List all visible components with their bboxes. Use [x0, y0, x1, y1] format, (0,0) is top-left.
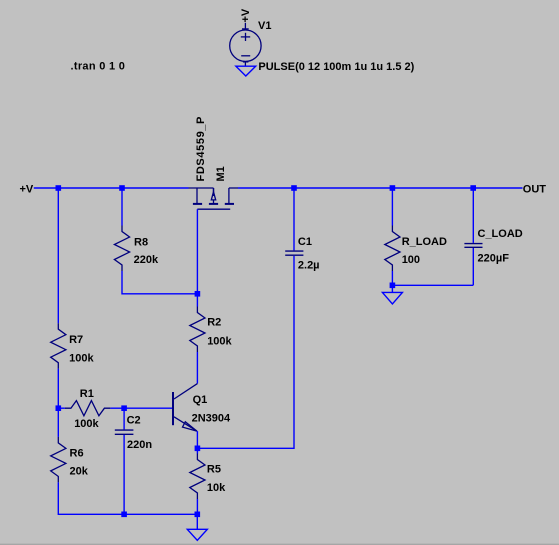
wire C_LOAD top: [472, 188, 474, 243]
wire node to R1: [58, 407, 65, 409]
svg-text:20k: 20k: [70, 466, 89, 478]
ground stem below R5 node: [196, 514, 198, 529]
resistor R7: [51, 323, 66, 369]
node C2 bottom rail: [121, 512, 127, 518]
wire R7 bottom to node: [57, 369, 59, 409]
transistor Q1: [173, 384, 197, 432]
resistor R_LOAD: [385, 226, 400, 272]
resistor R8: [114, 226, 129, 272]
capacitor C1: [285, 251, 303, 255]
wire R_LOAD top: [391, 188, 393, 226]
svg-text:10k: 10k: [207, 482, 226, 494]
node rail R8 branch: [119, 185, 125, 191]
svg-text:100k: 100k: [69, 352, 94, 364]
svg-text:V1: V1: [258, 20, 271, 32]
wire R1 to Q1 base: [110, 407, 172, 409]
wire R_LOAD bottom: [391, 271, 393, 285]
wire C1 top: [293, 188, 295, 250]
ground stem below R_LOAD: [391, 285, 393, 292]
wire Q1 emitter down: [196, 431, 198, 448]
resistor R6: [51, 437, 66, 483]
node rail R7 branch: [56, 185, 62, 191]
wire R6 top: [57, 408, 59, 437]
svg-text:100k: 100k: [207, 335, 232, 347]
ground at R5: [187, 529, 207, 540]
capacitor C_LOAD: [464, 244, 482, 248]
node R5 bottom rail: [195, 512, 201, 518]
node R7 R1 R6: [56, 405, 62, 411]
node rail R_LOAD: [390, 185, 396, 191]
window bottom edge strip: [0, 543, 559, 544]
wire R6 bottom + bottom rail: [58, 482, 197, 514]
svg-text:.tran 0 1 0: .tran 0 1 0: [71, 61, 126, 73]
svg-text:R1: R1: [80, 388, 94, 400]
svg-text:2.2µ: 2.2µ: [298, 259, 320, 271]
wire R2 bottom to Q1 collector: [196, 352, 198, 384]
wire R_LOAD bottom node to C_LOAD bottom: [392, 284, 473, 286]
MOSFET M1: [189, 188, 239, 209]
svg-text:FDS4559_P: FDS4559_P: [195, 116, 207, 182]
svg-text:R6: R6: [70, 448, 84, 460]
svg-text:C_LOAD: C_LOAD: [478, 228, 523, 240]
wire gate of M1 down: [196, 209, 198, 294]
svg-text:100: 100: [402, 254, 420, 266]
svg-text:Q1: Q1: [193, 394, 208, 406]
wire drain rail to OUT: [238, 187, 523, 189]
node emitter R5 C1: [195, 446, 201, 452]
svg-text:R8: R8: [134, 236, 148, 248]
wire +V rail: [34, 187, 189, 189]
svg-text:R2: R2: [207, 317, 221, 329]
capacitor C2: [115, 430, 134, 434]
resistor R2: [190, 307, 205, 353]
svg-text:2N3904: 2N3904: [192, 412, 231, 424]
svg-text:+V: +V: [240, 8, 252, 22]
wire emitter node to C1 bottom: [197, 256, 294, 448]
svg-text:100k: 100k: [74, 418, 99, 430]
wire R8 branch top: [121, 188, 123, 226]
wire R7 branch top: [57, 188, 59, 323]
ground at R_LOAD: [382, 292, 402, 304]
svg-text:OUT: OUT: [523, 184, 547, 196]
node rail C1: [291, 185, 297, 191]
resistor R5: [190, 454, 205, 500]
node rail C_LOAD: [470, 185, 476, 191]
svg-text:PULSE(0 12 100m 1u 1u 1.5 2): PULSE(0 12 100m 1u 1u 1.5 2): [258, 61, 414, 73]
wire R5 top lead: [196, 448, 198, 453]
svg-text:M1: M1: [215, 166, 227, 181]
wire R5 bottom: [196, 499, 198, 514]
node gate R8 R2: [195, 291, 201, 297]
node R_LOAD gnd C_LOAD: [390, 283, 396, 289]
wire R8 bottom to gate node: [122, 271, 197, 294]
svg-text:220n: 220n: [127, 439, 152, 451]
node R1 C2 base: [121, 405, 127, 411]
svg-text:R_LOAD: R_LOAD: [402, 236, 447, 248]
svg-text:220µF: 220µF: [478, 253, 510, 265]
wire C_LOAD bottom: [472, 248, 474, 285]
svg-text:C1: C1: [298, 236, 312, 248]
svg-text:220k: 220k: [134, 254, 159, 266]
svg-text:R5: R5: [207, 463, 221, 475]
wire R2 top lead: [196, 294, 198, 307]
resistor R1: [65, 401, 111, 416]
ground at V1: [236, 66, 256, 76]
svg-text:R7: R7: [69, 334, 83, 346]
wire C2 top: [123, 408, 125, 429]
svg-text:C2: C2: [127, 415, 141, 427]
voltage source V1: [230, 23, 261, 66]
wire C2 bottom: [123, 435, 125, 514]
svg-text:+V: +V: [20, 184, 34, 196]
